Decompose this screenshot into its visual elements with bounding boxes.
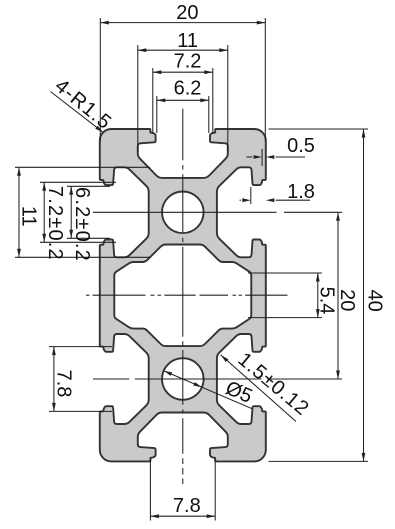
dim 20 top bbox=[100, 2, 265, 24]
svg-text:11: 11 bbox=[17, 206, 39, 227]
svg-text:40: 40 bbox=[363, 289, 385, 311]
dim 0.5 bbox=[247, 135, 315, 159]
dim 20 right bbox=[336, 212, 358, 379]
dim 1.8 bbox=[240, 181, 315, 203]
dim 11 top extension lines bbox=[138, 45, 228, 152]
svg-text:7.2: 7.2 bbox=[174, 50, 202, 72]
svg-text:20: 20 bbox=[336, 289, 358, 311]
hole bottom (diameter 5) bbox=[162, 358, 204, 400]
svg-text:7.8: 7.8 bbox=[52, 370, 74, 398]
svg-text:0.5: 0.5 bbox=[287, 135, 315, 157]
svg-text:11: 11 bbox=[177, 30, 198, 52]
dim 5.4 bbox=[316, 273, 338, 318]
leader 1.5+-0.12 bbox=[221, 348, 314, 421]
dim 7.8 bottom bbox=[150, 495, 215, 518]
leader 4-R1.5 bbox=[50, 75, 115, 134]
dim 6.2 left extension lines bbox=[67, 186, 110, 238]
svg-text:7.8: 7.8 bbox=[173, 495, 201, 517]
hole top (diameter 5) bbox=[162, 192, 204, 234]
dim 6.2 top extension lines bbox=[157, 96, 209, 133]
svg-text:6.2: 6.2 bbox=[174, 77, 202, 99]
dim 7.2 top extension lines bbox=[153, 68, 213, 134]
dim 20 top extension lines bbox=[100, 18, 265, 141]
dim 7.2 top bbox=[153, 50, 213, 74]
dim 1.8 extension line bbox=[250, 187, 252, 204]
horizontal centerline middle bbox=[86, 294, 288, 296]
svg-text:7.2±0.2: 7.2±0.2 bbox=[44, 186, 66, 261]
dim 5.4 extension lines bbox=[248, 273, 322, 318]
dim 0.5 extension line bbox=[261, 149, 263, 166]
dim 6.2 top bbox=[157, 77, 209, 102]
horizontal centerline top hole bbox=[93, 211, 342, 213]
svg-text:6.2±0.2: 6.2±0.2 bbox=[71, 187, 93, 262]
svg-text:4-R1.5: 4-R1.5 bbox=[50, 75, 115, 134]
dim 7.8 bottom extension lines bbox=[150, 459, 215, 521]
leader diameter 5 bbox=[164, 371, 256, 409]
svg-text:5.4: 5.4 bbox=[316, 287, 338, 315]
dim 7.8 left bbox=[52, 347, 74, 412]
dim 40 extension lines bbox=[269, 129, 369, 461]
svg-text:20: 20 bbox=[176, 2, 198, 24]
middle internal cavity bbox=[114, 245, 251, 347]
dim 7.8 left extension lines bbox=[49, 347, 112, 412]
dim 6.2 left bbox=[69, 186, 93, 262]
dim 11 top bbox=[138, 30, 228, 52]
profile body (20x40 extrusion cross-section) bbox=[100, 129, 266, 461]
svg-text:1.8: 1.8 bbox=[287, 181, 315, 203]
dim 40 bbox=[362, 129, 386, 461]
vertical centerline bbox=[182, 109, 184, 484]
dim 7.2 left bbox=[42, 182, 66, 261]
dim 7.2 left extension lines bbox=[40, 182, 116, 242]
dim 11 left extension lines bbox=[15, 167, 150, 257]
horizontal centerline bottom hole bbox=[93, 378, 342, 380]
dim 11 left bbox=[17, 167, 39, 257]
